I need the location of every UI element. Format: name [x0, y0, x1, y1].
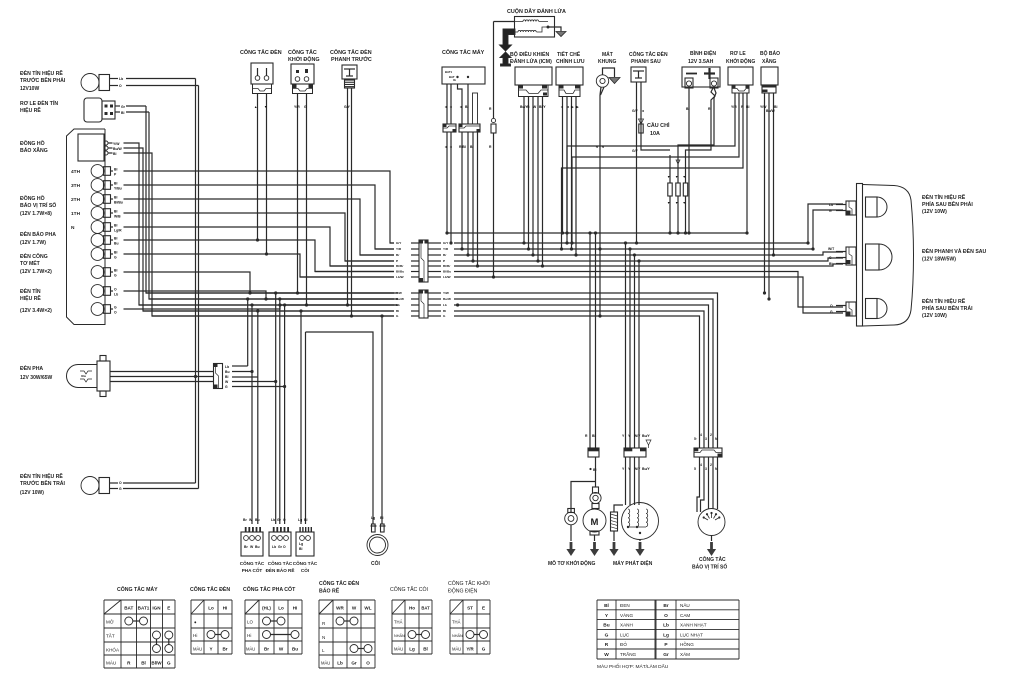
- tail bulb: rear left turn signal: [866, 299, 878, 319]
- svg-text:CÔNG TẮC: CÔNG TẮC: [268, 559, 293, 566]
- thick arrow up (ICM continuation): [500, 52, 511, 66]
- svg-text:(12V 1.7W×8): (12V 1.7W×8): [20, 211, 52, 217]
- svg-text:CÔNG TẮC: CÔNG TẮC: [699, 555, 726, 563]
- svg-text:O: O: [830, 304, 833, 308]
- svg-text:CÔNG TẮC ĐÈN: CÔNG TẮC ĐÈN: [190, 585, 230, 593]
- svg-text:Lb: Lb: [663, 623, 669, 629]
- wire turn-signal switch drops: [275, 293, 277, 524]
- svg-text:XANH NHẠT: XANH NHẠT: [680, 623, 707, 628]
- battery positive wires: [686, 88, 716, 155]
- svg-text:G: G: [114, 306, 117, 310]
- svg-text:WL: WL: [364, 606, 371, 611]
- svg-text:NHẤN: NHẤN: [394, 634, 405, 638]
- svg-text:Bl/Br: Bl/Br: [396, 264, 404, 268]
- svg-text:▼: ▼: [683, 175, 686, 179]
- frame ground ring terminal: [596, 75, 608, 87]
- rectifier connector: [559, 85, 580, 97]
- wire coil to main switch lead: [494, 21, 515, 23]
- fuse: brake circuit: [639, 119, 644, 124]
- svg-text:1TH: 1TH: [71, 211, 81, 217]
- connector: turn signal switch (CONG TAC DEN BAO RE): [271, 527, 289, 532]
- svg-text:Bu: Bu: [255, 545, 260, 549]
- svg-text:Bl: Bl: [396, 309, 399, 313]
- svg-text:ĐÈN TÍN HIỆU RẼ: ĐÈN TÍN HIỆU RẼ: [20, 472, 63, 480]
- switch: CONG TAC MAY (main): [442, 67, 485, 84]
- ground arrow motor left: [566, 542, 575, 556]
- svg-text:Lb: Lb: [337, 661, 343, 666]
- tail feed junction dots: [806, 241, 809, 244]
- svg-text:Bl: Bl: [604, 603, 609, 609]
- rectifier box: [556, 67, 583, 85]
- svg-text:O: O: [283, 545, 286, 549]
- harness bus upper group: [390, 242, 394, 244]
- svg-text:G: G: [119, 487, 122, 491]
- svg-text:Hi: Hi: [247, 633, 251, 638]
- svg-text:W: W: [604, 652, 609, 658]
- svg-text:PHANH SAU: PHANH SAU: [631, 59, 661, 65]
- svg-text:Bl: Bl: [465, 105, 468, 109]
- svg-text:◄: ◄: [444, 145, 447, 149]
- indicator lamp y=254: [91, 248, 104, 261]
- svg-text:CÔNG TẮC ĐÈN: CÔNG TẮC ĐÈN: [330, 48, 372, 56]
- svg-text:Bl: Bl: [470, 145, 473, 149]
- svg-text:Bl: Bl: [225, 375, 228, 379]
- svg-text:BỘ ĐIỀU KHIỂN: BỘ ĐIỀU KHIỂN: [510, 50, 549, 58]
- svg-text:G: G: [167, 661, 171, 666]
- svg-text:MÀU: MÀU: [321, 661, 330, 666]
- svg-text:BÁO VỊ TRÍ SỐ: BÁO VỊ TRÍ SỐ: [20, 201, 56, 209]
- svg-text:CÔNG TẮC ĐÈN: CÔNG TẮC ĐÈN: [629, 50, 668, 58]
- svg-text:BÁO RẼ: BÁO RẼ: [319, 588, 340, 595]
- frame ground symbol: [603, 68, 615, 77]
- switch: front brake light: [342, 65, 357, 79]
- ground arrow motor: [594, 535, 596, 541]
- switch: CONG TAC KHOI DONG: [291, 64, 314, 84]
- svg-text:G: G: [482, 647, 486, 652]
- svg-text:(12V 10W): (12V 10W): [922, 209, 947, 215]
- svg-text:O: O: [119, 481, 122, 485]
- svg-text:ST: ST: [467, 606, 473, 611]
- svg-text:(12V 18W/5W): (12V 18W/5W): [922, 257, 956, 263]
- indicator lamp y=272: [91, 266, 104, 279]
- svg-text:Lg: Lg: [663, 632, 669, 638]
- svg-text:NÂU: NÂU: [680, 602, 690, 608]
- svg-text:KHỞI ĐỘNG: KHỞI ĐỘNG: [726, 57, 755, 65]
- svg-text:CHỈNH LƯU: CHỈNH LƯU: [556, 58, 585, 65]
- indicator lamp y=240: [91, 234, 104, 247]
- svg-text:Y/R: Y/R: [396, 247, 402, 251]
- svg-text:▶: ▶: [570, 105, 574, 109]
- starter motor lead and ground branch: [595, 457, 597, 487]
- svg-text:3: 3: [705, 437, 707, 441]
- tail connector right turn: [846, 201, 856, 215]
- svg-text:XĂNG: XĂNG: [762, 58, 777, 65]
- svg-text:TIẾT CHẾ: TIẾT CHẾ: [557, 51, 581, 58]
- svg-text:(12V 10W): (12V 10W): [20, 490, 44, 496]
- svg-text:Ho: Ho: [409, 606, 415, 611]
- rear brake switch wires: [636, 82, 638, 243]
- ground arrow alternator: [639, 540, 641, 542]
- svg-text:LO: LO: [247, 620, 253, 625]
- svg-text:10A: 10A: [650, 131, 660, 137]
- svg-text:Br: Br: [663, 603, 668, 609]
- svg-text:TƠ MÉT: TƠ MÉT: [20, 259, 41, 267]
- svg-text:W/T: W/T: [828, 247, 835, 251]
- wire horn switch drops: [300, 311, 302, 524]
- gear switch wire drop: [708, 457, 710, 509]
- svg-text:Bl/Br: Bl/Br: [443, 264, 451, 268]
- svg-text:Lb/W: Lb/W: [396, 275, 404, 279]
- svg-text:Bl: Bl: [686, 107, 689, 111]
- connector: dimmer switch (CONG TAC PHA COT): [243, 527, 261, 532]
- svg-text:(HL): (HL): [262, 606, 271, 611]
- svg-text:E: E: [482, 606, 485, 611]
- svg-text:CÔNG TẮC: CÔNG TẮC: [288, 48, 317, 56]
- starter motor ring terminal small: [593, 487, 599, 493]
- svg-text:Lg/R: Lg/R: [114, 229, 122, 233]
- svg-text:Y/R: Y/R: [466, 647, 474, 652]
- svg-text:Gr: Gr: [663, 652, 669, 658]
- svg-text:W/B: W/B: [114, 215, 121, 219]
- svg-text:ĐỒNG HỒ: ĐỒNG HỒ: [20, 195, 45, 202]
- svg-text:Lb: Lb: [225, 365, 229, 369]
- svg-text:THẢ: THẢ: [452, 620, 461, 625]
- bus connector upper: [419, 240, 428, 282]
- svg-text:KHÓA: KHÓA: [106, 647, 120, 653]
- starter relay wires: [567, 93, 735, 233]
- svg-text:BÁO XĂNG: BÁO XĂNG: [20, 147, 48, 154]
- svg-text:Lg: Lg: [371, 516, 375, 520]
- svg-text:Bu: Bu: [292, 647, 298, 652]
- svg-text:Bu/W: Bu/W: [113, 147, 122, 151]
- svg-text:Bu/W: Bu/W: [396, 297, 404, 301]
- svg-text:Y/R: Y/R: [294, 105, 300, 109]
- svg-text:R/Bl: R/Bl: [459, 145, 466, 149]
- svg-text:ĐỒNG HỒ: ĐỒNG HỒ: [20, 140, 45, 147]
- svg-text:Bl/Bu: Bl/Bu: [114, 201, 123, 205]
- svg-text:Lo: Lo: [208, 606, 214, 611]
- svg-text:MÀU PHỐI HỢP: MÁT/LÀM DẤU: MÀU PHỐI HỢP: MÁT/LÀM DẤU: [597, 663, 669, 670]
- svg-text:(12V 10W): (12V 10W): [922, 313, 947, 319]
- svg-text:BAT: BAT: [124, 606, 133, 611]
- svg-text:Lb: Lb: [272, 545, 276, 549]
- svg-text:Lb: Lb: [396, 303, 400, 307]
- svg-text:O: O: [119, 84, 122, 88]
- svg-text:ĐÈN CÔNG: ĐÈN CÔNG: [20, 252, 48, 260]
- svg-text:◄: ◄: [449, 105, 452, 109]
- svg-text:CÔNG TẮC PHA CỐT: CÔNG TẮC PHA CỐT: [243, 585, 296, 593]
- svg-text:PHANH TRƯỚC: PHANH TRƯỚC: [331, 55, 372, 63]
- alternator pickup coil: [611, 512, 618, 531]
- svg-text:Y/R: Y/R: [443, 247, 449, 251]
- svg-text:ĐỘNG ĐIỆN: ĐỘNG ĐIỆN: [448, 587, 478, 595]
- fuel sender box: [761, 67, 778, 85]
- wire front right turn to vertical: [126, 78, 196, 80]
- svg-text:Bl/Bu: Bl/Bu: [443, 270, 451, 274]
- svg-text:G: G: [830, 310, 833, 314]
- coil ground: [548, 27, 561, 31]
- battery terminals: [685, 78, 693, 88]
- svg-text:MỞ: MỞ: [106, 619, 114, 625]
- svg-text:W/Y: W/Y: [634, 434, 641, 438]
- svg-text:▼: ▼: [675, 201, 678, 205]
- svg-text:ĐEN: ĐEN: [620, 603, 630, 608]
- svg-text:BAT1: BAT1: [138, 606, 150, 611]
- svg-text:Y/W: Y/W: [443, 291, 449, 295]
- svg-text:Br: Br: [222, 647, 227, 652]
- svg-text:Bl/Y: Bl/Y: [539, 105, 546, 109]
- ICM connector: [519, 85, 549, 97]
- lamp: front right turn signal: [81, 74, 99, 92]
- svg-text:MÔ TƠ KHỞI ĐỘNG: MÔ TƠ KHỞI ĐỘNG: [548, 559, 596, 567]
- svg-text:4: 4: [700, 463, 702, 467]
- svg-text:XÁM: XÁM: [680, 651, 690, 657]
- svg-text:Bu: Bu: [255, 518, 260, 522]
- svg-text:G: G: [605, 632, 609, 638]
- svg-text:N: N: [71, 225, 75, 231]
- svg-text:Bl/Bu: Bl/Bu: [396, 270, 404, 274]
- svg-text:G/Y: G/Y: [632, 109, 639, 113]
- svg-text:RƠ LE: RƠ LE: [730, 51, 746, 57]
- vertical wire turn-signal right (to headlight area): [195, 79, 197, 484]
- svg-text:VÀNG: VÀNG: [620, 612, 633, 618]
- svg-text:ĐÈN BÁO RẼ: ĐÈN BÁO RẼ: [266, 566, 295, 573]
- svg-text:ĐÈN TÍN HIỆU RẼ: ĐÈN TÍN HIỆU RẼ: [20, 69, 63, 77]
- wire relay to cascade: [126, 105, 146, 107]
- svg-text:◄: ◄: [641, 109, 644, 113]
- svg-text:Bl: Bl: [114, 182, 117, 186]
- svg-text:Hi: Hi: [293, 606, 298, 611]
- starter relay connector: [732, 85, 749, 93]
- motor ground ring terminal: [568, 509, 575, 513]
- svg-text:ĐÈN PHANH VÀ ĐÈN SAU: ĐÈN PHANH VÀ ĐÈN SAU: [922, 247, 987, 255]
- svg-text:CÔNG TẮC KHỞI: CÔNG TẮC KHỞI: [448, 579, 490, 587]
- svg-text:▲: ▲: [254, 105, 257, 109]
- wire light switch down: [257, 94, 259, 241]
- svg-text:Bl: Bl: [114, 269, 117, 273]
- svg-text:BÌNH ĐIỆN: BÌNH ĐIỆN: [690, 49, 716, 57]
- ICM wires to bus: [523, 97, 525, 244]
- svg-text:Hi: Hi: [223, 606, 228, 611]
- svg-text:Bl: Bl: [299, 547, 302, 551]
- svg-text:XANH: XANH: [620, 623, 633, 628]
- svg-text:ĐÈN TÍN HIỆU RẼ: ĐÈN TÍN HIỆU RẼ: [922, 297, 966, 305]
- svg-text:MÀU: MÀU: [394, 647, 403, 652]
- svg-text:CÔNG TẮC: CÔNG TẮC: [293, 559, 318, 566]
- svg-text:Bl: Bl: [113, 152, 116, 156]
- svg-text:Bu/W: Bu/W: [766, 109, 775, 113]
- svg-text:Lb: Lb: [443, 303, 447, 307]
- svg-text:▼: ▼: [675, 175, 678, 179]
- fuel sender wires down: [764, 93, 766, 293]
- svg-text:2TH: 2TH: [71, 197, 81, 203]
- wire cascade: instrument lamps to harness bus: [124, 143, 399, 305]
- svg-text:Bl: Bl: [380, 516, 383, 520]
- svg-text:IG: IG: [453, 78, 456, 82]
- ignition coil box: [515, 17, 555, 38]
- svg-text:WR: WR: [336, 606, 344, 611]
- svg-text:G: G: [527, 105, 530, 109]
- svg-text:M: M: [591, 517, 599, 528]
- frame ground wire down: [599, 95, 601, 316]
- fuel sender connector: [762, 85, 776, 93]
- svg-text:LỤC NHẠT: LỤC NHẠT: [680, 632, 703, 637]
- svg-text:Gr: Gr: [278, 545, 283, 549]
- svg-text:(12V 3.4W×2): (12V 3.4W×2): [20, 308, 52, 314]
- svg-text:G: G: [114, 256, 117, 260]
- svg-text:MÀU: MÀU: [193, 647, 202, 652]
- main switch connectors: [443, 124, 456, 132]
- svg-text:CẦU CHÌ: CẦU CHÌ: [647, 121, 670, 129]
- svg-text:G: G: [225, 385, 228, 389]
- svg-text:MÀU: MÀU: [452, 647, 461, 652]
- harness bus lower group: [146, 292, 394, 294]
- svg-text:CÔNG TẮC CÒI: CÔNG TẮC CÒI: [390, 585, 428, 593]
- svg-text:R: R: [605, 642, 609, 648]
- wire dimmer switch drops: [247, 299, 249, 366]
- svg-text:KHUNG: KHUNG: [598, 59, 616, 65]
- svg-text:Bl/W: Bl/W: [151, 661, 162, 666]
- svg-text:◄: ◄: [566, 105, 569, 109]
- svg-text:TRƯỚC BÊN TRÁI: TRƯỚC BÊN TRÁI: [20, 479, 65, 487]
- svg-text:MÁY PHÁT ĐIỆN: MÁY PHÁT ĐIỆN: [613, 559, 653, 567]
- tail bulb: brake and tail lamp: [866, 244, 880, 270]
- gear switch wires: [699, 447, 701, 449]
- svg-text:Bl: Bl: [423, 647, 428, 652]
- svg-text:O: O: [664, 613, 668, 619]
- svg-text:▶: ▶: [575, 105, 579, 109]
- indicator lamp y=309: [91, 303, 104, 316]
- battery box: [682, 67, 720, 87]
- svg-text:◄: ◄: [459, 105, 462, 109]
- battery lead to ignition switch: [493, 22, 495, 119]
- svg-text:CÔNG TẮC ĐÈN: CÔNG TẮC ĐÈN: [319, 579, 359, 587]
- svg-text:4TH: 4TH: [71, 169, 81, 175]
- switch: CONG TAC DEN: [251, 63, 273, 84]
- svg-text:Lb: Lb: [271, 518, 275, 522]
- alternator: [622, 503, 659, 540]
- svg-text:HIỆU RẼ: HIỆU RẼ: [20, 106, 41, 114]
- bus connector lower: [419, 290, 428, 318]
- tail connector left turn: [846, 302, 856, 316]
- svg-text:4: 4: [700, 433, 702, 437]
- svg-text:ĐỎ: ĐỎ: [620, 641, 627, 647]
- tail connector brake/tail: [846, 247, 856, 265]
- svg-text:THẢ: THẢ: [394, 620, 403, 625]
- svg-text:ĐÁNH LỬA (ICM): ĐÁNH LỬA (ICM): [510, 58, 552, 65]
- starter motor connector: [588, 448, 599, 457]
- svg-text:G/Y: G/Y: [396, 241, 402, 245]
- svg-text:▼: ▼: [683, 201, 686, 205]
- wires front left turn to verticals: [123, 482, 196, 484]
- battery negative wire: [688, 88, 690, 233]
- main switch thick lead: [473, 93, 478, 124]
- table: wire color legend: [596, 600, 598, 659]
- svg-text:N: N: [322, 635, 325, 640]
- rectifier wires to bus: [562, 97, 564, 234]
- svg-text:Bu: Bu: [603, 623, 609, 629]
- ICM box: [515, 67, 552, 85]
- tail bulb: rear right turn signal: [866, 197, 878, 217]
- svg-text:2: 2: [710, 463, 712, 467]
- headlight connector: [214, 364, 223, 389]
- svg-text:▼: ▼: [667, 175, 670, 179]
- svg-text:Bl: Bl: [141, 661, 146, 666]
- instrument cluster bracket: [67, 129, 106, 325]
- svg-text:W: W: [279, 647, 284, 652]
- svg-text:Lb: Lb: [119, 77, 123, 81]
- svg-text:CAM: CAM: [680, 613, 690, 618]
- svg-text:Bu/Y: Bu/Y: [642, 467, 650, 471]
- svg-text:P: P: [443, 259, 445, 263]
- svg-text:MÀU: MÀU: [106, 660, 116, 666]
- svg-text:Br: Br: [264, 647, 269, 652]
- svg-text:◄: ◄: [560, 105, 563, 109]
- svg-text:Y/R: Y/R: [731, 105, 737, 109]
- svg-text:(12V 1.7W): (12V 1.7W): [20, 240, 46, 246]
- svg-text:Lg: Lg: [299, 542, 303, 546]
- svg-text:IGN: IGN: [152, 606, 161, 611]
- svg-text:CÒI: CÒI: [301, 566, 309, 573]
- svg-text:▼: ▼: [667, 201, 670, 205]
- starter relay box: [728, 67, 753, 85]
- svg-text:Y: Y: [209, 647, 212, 652]
- wire starter switch down: [297, 94, 299, 294]
- svg-text:Lg: Lg: [298, 518, 302, 522]
- svg-text:RƠ LE ĐÈN TÍN: RƠ LE ĐÈN TÍN: [20, 99, 58, 107]
- svg-text:CÔNG TẮC: CÔNG TẮC: [240, 559, 265, 566]
- fuel gauge: [78, 134, 104, 161]
- svg-text:BỘ BÁO: BỘ BÁO: [760, 49, 780, 57]
- svg-text:MÁT: MÁT: [602, 51, 613, 58]
- alternator wires: [625, 243, 627, 448]
- svg-text:G: G: [114, 274, 117, 278]
- svg-text:G/Y: G/Y: [443, 241, 449, 245]
- svg-text:Lb: Lb: [114, 293, 118, 297]
- wire horn ground lead: [381, 316, 383, 524]
- svg-text:Bl: Bl: [304, 518, 307, 522]
- svg-text:Bl: Bl: [114, 251, 117, 255]
- svg-text:Y/W: Y/W: [396, 291, 402, 295]
- svg-text:2: 2: [710, 433, 712, 437]
- svg-text:G: G: [829, 209, 832, 213]
- svg-text:Bl: Bl: [592, 434, 595, 438]
- svg-text:CUỘN DÂY ĐÁNH LỬA: CUỘN DÂY ĐÁNH LỬA: [507, 7, 566, 15]
- svg-text:Bl: Bl: [114, 210, 117, 214]
- relay: turn signal relay: [84, 98, 102, 122]
- svg-text:HỒNG: HỒNG: [680, 641, 694, 647]
- svg-text:Y/Bu: Y/Bu: [114, 187, 122, 191]
- svg-text:Bu/W: Bu/W: [443, 297, 451, 301]
- svg-text:TRƯỚC BÊN PHẢI: TRƯỚC BÊN PHẢI: [20, 76, 66, 84]
- connector: horn switch (CONG TAC COI): [298, 527, 312, 532]
- svg-text:3: 3: [705, 467, 707, 471]
- svg-text:(12V 1.7W×2): (12V 1.7W×2): [20, 269, 52, 275]
- svg-text:W: W: [352, 606, 357, 611]
- alternator connector: [624, 448, 646, 457]
- svg-text:CÔNG TẮC MÁY: CÔNG TẮC MÁY: [117, 585, 158, 593]
- svg-text:MÀU: MÀU: [246, 647, 255, 652]
- svg-text:Bu: Bu: [225, 370, 230, 374]
- main switch wires to bus: [446, 132, 448, 233]
- svg-text:PHÍA SAU BÊN TRÁI: PHÍA SAU BÊN TRÁI: [922, 304, 973, 312]
- svg-text:Bl: Bl: [114, 196, 117, 200]
- svg-text:Bl: Bl: [829, 262, 832, 266]
- svg-text:G: G: [829, 256, 832, 260]
- svg-text:BAT1: BAT1: [445, 70, 453, 74]
- svg-text:◄: ◄: [444, 105, 447, 109]
- svg-text:ĐÈN BÁO PHA: ĐÈN BÁO PHA: [20, 230, 56, 238]
